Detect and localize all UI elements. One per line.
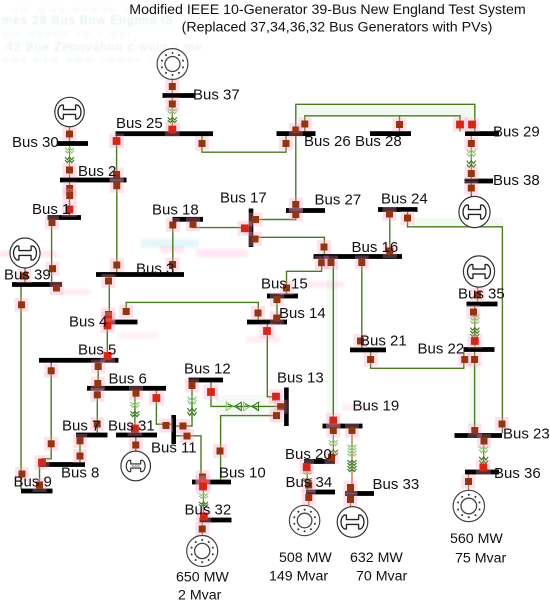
wire line 10-11: [176, 436, 201, 480]
breaker squares line 6-7: [90, 388, 104, 431]
transformer coil 23-36: [479, 446, 488, 464]
bus bar Bus 27: [286, 208, 325, 213]
svg-text:508 MW: 508 MW: [279, 550, 332, 566]
wire line 21-22: [371, 352, 464, 368]
output label 632 MW: [350, 550, 403, 566]
svg-text:Bus 6: Bus 6: [109, 371, 147, 388]
svg-text:560 MW: 560 MW: [450, 531, 503, 547]
breaker squares line 25-2: [109, 134, 124, 182]
breaker squares line 16-21: [354, 256, 369, 349]
svg-text:Bus 30: Bus 30: [12, 134, 59, 151]
wire line 6-7: [96, 391, 98, 433]
label Bus 38: [493, 172, 540, 189]
transformer coil 6-31: [130, 402, 139, 417]
svg-text:Modified IEEE 10-Generator 39-: Modified IEEE 10-Generator 39-Bus New En…: [129, 2, 525, 18]
output label 149 Mvar: [269, 568, 328, 584]
svg-text:Bus 19: Bus 19: [353, 398, 400, 415]
svg-text:Bus 35: Bus 35: [458, 286, 505, 303]
breaker square line 8-9: [33, 478, 47, 492]
label Bus 10: [219, 465, 266, 482]
breaker square gen39: [18, 269, 32, 283]
breaker squares line 1-2: [62, 182, 77, 217]
svg-text:Bus 12: Bus 12: [184, 361, 231, 378]
breaker squares line 7-8: [73, 434, 87, 463]
label Bus 29: [493, 124, 540, 141]
bus bar Bus 35: [467, 302, 498, 307]
wire gen38 lead: [470, 184, 472, 198]
wire transformer 6-31 riser: [134, 391, 136, 433]
wire transformer 22-35: [474, 307, 476, 348]
svg-text:Bus 39: Bus 39: [4, 267, 51, 284]
wire line 26-28: [305, 116, 400, 132]
svg-text:Bus 22: Bus 22: [418, 341, 465, 358]
label Bus 12: [184, 361, 231, 378]
wire transformer 23-36: [483, 438, 485, 470]
breaker squares transformer 19-33: [344, 424, 360, 495]
breaker squares line 17-18: [186, 217, 252, 235]
svg-text:Bus 31: Bus 31: [108, 418, 155, 435]
slack generator at Bus 31: [121, 451, 151, 481]
breaker square transformer 2-30: [63, 163, 77, 177]
label Bus 21: [360, 333, 407, 350]
breaker squares line 16-15: [280, 256, 329, 295]
breaker squares line 10-11: [180, 429, 210, 490]
svg-text:SLACK: SLACK: [132, 465, 140, 468]
breaker square gen33: [344, 493, 358, 507]
breaker squares line 3-18: [166, 218, 180, 272]
label Bus 14: [279, 305, 326, 322]
bus bar Bus 39: [12, 282, 62, 287]
generator G33: [337, 507, 368, 538]
label Bus 27: [315, 192, 362, 209]
svg-text:Bus 24: Bus 24: [381, 191, 428, 208]
label Bus 5: [78, 342, 116, 359]
breaker square line 28-29: [453, 117, 468, 132]
svg-text:Bus 16: Bus 16: [352, 239, 399, 256]
svg-text:Bus 29: Bus 29: [493, 124, 540, 141]
svg-text:Bus 4: Bus 4: [69, 314, 107, 331]
transformer coil 25-37: [168, 109, 177, 123]
svg-text:Bus 25: Bus 25: [116, 115, 163, 132]
breaker squares line 17-16: [248, 232, 331, 254]
bus bar Bus 12: [189, 378, 224, 383]
breaker squares line 1-39: [45, 216, 60, 276]
bus bar Bus 33: [345, 491, 374, 496]
PV unit at Bus 36: [453, 490, 484, 521]
breaker squares line 14-13: [260, 324, 284, 404]
breaker squares line 4-5: [100, 318, 115, 363]
background ghost text artifact: [1, 5, 203, 66]
svg-text:wm mwsnm sm v mur: wm mwsnm sm v mur: [1, 29, 133, 40]
wire line 26-27: [295, 136, 297, 209]
svg-text:Bus 2: Bus 2: [78, 163, 116, 180]
label Bus 4: [69, 314, 107, 331]
label Bus 8: [61, 465, 99, 482]
bus bar Bus 14: [247, 320, 287, 325]
bus bar Bus 15: [267, 294, 298, 299]
output label 560 MW: [450, 531, 503, 547]
bus bar Bus 16: [314, 254, 403, 259]
breaker square gen30: [63, 127, 77, 141]
wire line 28-29: [400, 116, 461, 132]
breaker square pv36: [462, 475, 476, 489]
breaker squares line 3-4: [101, 274, 116, 327]
svg-text:Bus 26: Bus 26: [304, 133, 351, 150]
wire transformer 19-20: [332, 428, 334, 459]
wire line 3-18: [172, 222, 174, 273]
breaker squares line 26-28: [298, 117, 407, 132]
wire gen33 lead: [350, 496, 352, 507]
breaker squares line 16-19: [324, 256, 341, 428]
wire gen39 lead: [24, 268, 26, 283]
bus bar Bus 10: [192, 480, 231, 485]
PV unit at Bus 34: [289, 505, 319, 535]
transformer coil 19-20: [329, 440, 338, 456]
transformer coil 12-11: [188, 397, 197, 416]
breaker squares transformer 12-13: [204, 385, 288, 414]
breaker squares transformer 10-32: [196, 479, 212, 524]
label Bus 32: [185, 502, 232, 519]
breaker squares line 4-14: [119, 305, 265, 321]
svg-text:650 MW: 650 MW: [176, 569, 229, 585]
label Bus 30: [12, 134, 59, 151]
wire line 1-2: [69, 182, 71, 216]
bus bar Bus 7: [76, 433, 108, 438]
label Bus 37: [193, 87, 240, 104]
breaker squares transformer 6-31: [128, 386, 144, 436]
label Bus 22: [418, 341, 465, 358]
wire line 1-39: [51, 220, 53, 283]
breaker square slack gen: [129, 438, 143, 452]
bus bar Bus 26: [277, 131, 316, 136]
svg-text:2 Mvar: 2 Mvar: [178, 587, 222, 603]
breaker squares line 23-24: [401, 211, 510, 431]
svg-text:Bus 32: Bus 32: [185, 502, 232, 519]
svg-text:Bus 7: Bus 7: [62, 418, 100, 435]
bus bar Bus 38: [465, 179, 494, 184]
wire transformer 20-34: [306, 464, 308, 490]
output label 75 Mvar: [455, 551, 507, 567]
svg-text:632 MW: 632 MW: [350, 550, 403, 566]
label Bus 3: [136, 261, 174, 278]
bus bar Bus 8: [39, 462, 86, 467]
wire gen30 lead: [69, 127, 71, 142]
bus bar Bus 36: [465, 470, 499, 475]
transformer coil 20-34: [303, 471, 312, 482]
breaker squares line 2-3: [110, 179, 124, 272]
label Bus 23: [503, 426, 550, 443]
wire line 25-2: [116, 136, 118, 178]
bus bar Bus 11 (vertical): [171, 415, 176, 444]
label Bus 19: [353, 398, 400, 415]
label Bus 16: [352, 239, 399, 256]
bus bar Bus 5: [39, 358, 119, 363]
breaker squares line 25-26: [195, 137, 293, 151]
wire line 16-24: [389, 212, 391, 254]
label Bus 11: [151, 440, 197, 457]
wire transformer 29-38: [470, 136, 472, 179]
bus bar Bus 21: [350, 348, 386, 353]
transformer coil 2-30: [65, 148, 74, 163]
svg-text:Bus 9: Bus 9: [14, 474, 52, 491]
label Bus 1: [32, 201, 70, 218]
breaker squares line 17-27: [249, 208, 303, 227]
bus bar Bus 18: [173, 217, 204, 222]
wire line 5-6: [97, 363, 99, 386]
breaker square pv32: [195, 522, 209, 536]
svg-text:(Replaced 37,34,36,32 Bus Gene: (Replaced 37,34,36,32 Bus Generators wit…: [182, 19, 493, 35]
generator G39: [10, 238, 40, 268]
wire line 4-5: [106, 325, 108, 359]
wire line 15-14: [276, 299, 278, 320]
svg-text:75 Mvar: 75 Mvar: [455, 551, 507, 567]
wire line 25-26: [202, 136, 286, 152]
wire line 16-21: [361, 259, 363, 348]
breaker squares line 9-39: [15, 281, 64, 481]
title line 2: [182, 19, 493, 35]
svg-text:Bus 11: Bus 11: [151, 440, 197, 457]
label Bus 15: [261, 276, 308, 293]
bus bar Bus 29: [465, 131, 499, 136]
generator G30: [55, 97, 84, 126]
svg-text:Bus 27: Bus 27: [315, 192, 362, 209]
svg-text:Bus 38: Bus 38: [493, 172, 540, 189]
label Bus 20: [285, 446, 332, 463]
svg-text:Bus 14: Bus 14: [279, 305, 326, 322]
wire transformer 2-30: [69, 146, 71, 179]
label Bus 31: [108, 418, 155, 435]
svg-text:Bus 5: Bus 5: [78, 342, 116, 359]
wire line 8-9: [39, 467, 41, 489]
wire line 17-16: [253, 237, 324, 254]
wire line 7-8: [79, 437, 81, 462]
bus bar Bus 20: [304, 459, 335, 464]
bus bar Bus 4: [105, 320, 138, 325]
bus bar Bus 34: [306, 490, 335, 495]
bus bar Bus 23: [455, 433, 503, 438]
label Bus 2: [78, 163, 116, 180]
bus bar Bus 31: [116, 433, 157, 438]
svg-text:Bus 13: Bus 13: [277, 370, 324, 387]
wire line 16-15: [287, 259, 322, 294]
PV unit at Bus 32: [187, 536, 218, 567]
faint tint artifacts: [0, 100, 503, 426]
svg-text:Bus 3: Bus 3: [136, 261, 174, 278]
breaker squares line 5-6: [91, 360, 105, 391]
breaker squares transformer 19-20: [325, 424, 341, 465]
breaker squares line 26-29: [465, 117, 480, 132]
svg-text:Bus 36: Bus 36: [494, 465, 541, 482]
wire gen35 lead: [477, 288, 479, 302]
label Bus 36: [494, 465, 541, 482]
bus bar Bus 9: [21, 489, 53, 494]
wire transformer 12-11: [176, 383, 192, 427]
wire line 6-11: [156, 391, 171, 425]
svg-text:Bus 10: Bus 10: [219, 465, 266, 482]
svg-text:Bus 28: Bus 28: [355, 133, 402, 150]
svg-text:Bus 23: Bus 23: [503, 426, 550, 443]
wire line 10-13: [221, 416, 277, 480]
wire line 22-23: [474, 352, 476, 433]
bus bar Bus 30: [57, 141, 88, 146]
wire transformer 10-32: [202, 485, 204, 518]
transformer coil 10-32: [199, 494, 208, 507]
label Bus 28: [355, 133, 402, 150]
breaker square pv34: [302, 491, 316, 505]
bus bar Bus 13 (vertical): [284, 388, 289, 427]
wire transformer 12-13 bowtie run: [211, 383, 281, 407]
svg-text:Bus 18: Bus 18: [152, 202, 199, 219]
breaker squares line 5-8: [35, 364, 59, 470]
svg-text:Bus 20: Bus 20: [285, 446, 332, 463]
breaker squares line 6-11: [149, 391, 173, 433]
wire pv32 lead: [201, 523, 203, 536]
transformer coil 29-38: [467, 150, 476, 168]
svg-text:Bus 33: Bus 33: [373, 476, 420, 493]
breaker squares line 10-13: [213, 409, 284, 458]
svg-text:149 Mvar: 149 Mvar: [269, 568, 328, 584]
breaker squares line 22-23: [468, 353, 482, 438]
breaker squares line 21-22: [364, 353, 472, 367]
label Bus 39: [4, 267, 51, 284]
svg-text:Bus 1: Bus 1: [32, 201, 70, 218]
label Bus 33: [373, 476, 420, 493]
transformer coil 22-35: [470, 315, 479, 337]
breaker squares transformer 23-36: [476, 434, 491, 475]
breaker squares line 25-37: [165, 80, 180, 137]
wire line 5-8: [42, 363, 51, 462]
output label 70 Mvar: [356, 568, 408, 584]
label Bus 26: [304, 133, 351, 150]
title line 1: [129, 2, 525, 18]
breaker squares line 15-14: [270, 293, 284, 326]
PV unit at Bus 37: [157, 49, 188, 80]
wire transformer 19-33: [351, 428, 353, 491]
wire line 4-3: [108, 277, 110, 320]
bus bar Bus 25: [116, 131, 214, 136]
svg-text:Bus 37: Bus 37: [193, 87, 240, 104]
label Bus 17: [220, 190, 267, 207]
output label 650 MW: [176, 569, 229, 585]
svg-text:Bus 34: Bus 34: [286, 474, 333, 491]
generator G35: [463, 256, 494, 287]
transformer coil 19-33: [348, 445, 357, 472]
bus bar Bus 37: [163, 93, 196, 98]
breaker squares transformer 22-35: [467, 288, 485, 348]
label Bus 34: [286, 474, 333, 491]
generator G38: [459, 196, 490, 227]
wire slack gen lead: [135, 437, 137, 451]
bus bar Bus 32: [200, 518, 232, 523]
wire line 17-27: [253, 213, 295, 220]
bus bar Bus 19: [323, 424, 363, 429]
wire line 4-14: [126, 302, 258, 319]
wire line 23-24: [408, 212, 503, 433]
label Bus 7: [62, 418, 100, 435]
svg-text:Bus 15: Bus 15: [261, 276, 308, 293]
transformer bowtie 12-13 a: [226, 402, 241, 410]
output label 2 Mvar: [178, 587, 222, 603]
label Bus 6: [109, 371, 147, 388]
breaker squares line 16-24: [383, 207, 397, 258]
label Bus 13: [277, 370, 324, 387]
wire line 14-13: [267, 325, 276, 397]
svg-text:Bus 21: Bus 21: [360, 333, 407, 350]
breaker squares transformer 12-11: [176, 379, 199, 434]
wire line 26-29: [296, 104, 475, 131]
wire line 9-39: [20, 287, 22, 490]
svg-text:Bus 17: Bus 17: [220, 190, 267, 207]
wire line 2-3: [116, 182, 118, 273]
breaker squares transformer 29-38: [464, 137, 478, 196]
svg-text:wmv mew wmm smmne mmv: wmv mew wmm smmne mmv: [1, 55, 175, 66]
breaker squares line 26-27: [289, 123, 303, 212]
wire pv36 lead: [468, 475, 470, 491]
transformer bowtie 12-13 b: [244, 402, 259, 410]
bus bar Bus 17 (vertical): [249, 209, 254, 248]
bus bar Bus 6: [87, 386, 166, 391]
label Bus 18: [152, 202, 199, 219]
label Bus 35: [458, 286, 505, 303]
label Bus 9: [14, 474, 52, 491]
breaker squares transformer 20-34: [299, 460, 315, 492]
wire pv34 lead: [308, 495, 310, 506]
wire line 17-18: [193, 222, 249, 228]
bus bar Bus 3: [96, 272, 184, 277]
bus bar Bus 24: [378, 207, 418, 212]
label Bus 25: [116, 115, 163, 132]
label Bus 24: [381, 191, 428, 208]
bus bar Bus 1: [48, 215, 82, 220]
wire line 16-19: [332, 259, 333, 424]
svg-text:70 Mvar: 70 Mvar: [356, 568, 408, 584]
bus bar Bus 28: [370, 131, 411, 136]
svg-text:Bus 8: Bus 8: [61, 465, 99, 482]
output label 508 MW: [279, 550, 332, 566]
bus bar Bus 2: [60, 178, 127, 183]
bus bar Bus 22: [464, 347, 495, 352]
wire line 25-37 transformer riser: [171, 80, 173, 132]
